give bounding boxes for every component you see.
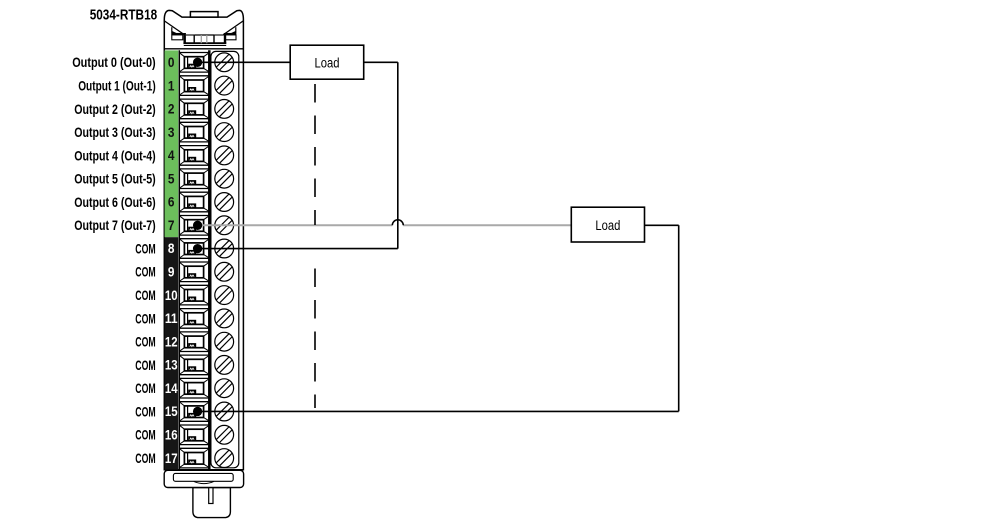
terminal 0 number label xyxy=(168,55,175,70)
wire terminal 0 to Load 1 xyxy=(198,61,291,63)
label COM (terminal 11) xyxy=(135,310,155,326)
terminal 8 screw xyxy=(215,239,234,258)
svg-text:5034-RTB18: 5034-RTB18 xyxy=(90,8,158,24)
RTB bottom flange xyxy=(164,470,243,487)
terminal 12 screw xyxy=(215,332,234,351)
terminal 9 clamp xyxy=(179,262,209,282)
wire Load 2 right to corner xyxy=(644,224,678,226)
svg-text:9: 9 xyxy=(168,265,175,280)
label Output 3 (Out-3) xyxy=(74,124,156,140)
terminal 7 screw xyxy=(215,216,234,235)
label COM (terminal 9) xyxy=(135,264,155,280)
terminal 13 screw xyxy=(215,356,234,375)
svg-text:6: 6 xyxy=(168,195,175,210)
terminal 0 clamp xyxy=(179,53,209,73)
wire hop over crossing xyxy=(392,220,403,225)
label Output 0 (Out-0) xyxy=(72,54,156,70)
terminal 5 screw xyxy=(215,169,234,188)
svg-text:16: 16 xyxy=(165,428,178,443)
terminal 11 number label xyxy=(165,311,178,326)
title 5034-RTB18 xyxy=(90,8,158,24)
svg-text:Output 6 (Out-6): Output 6 (Out-6) xyxy=(74,194,156,210)
terminal 13 clamp xyxy=(179,355,209,375)
svg-text:COM: COM xyxy=(135,357,155,373)
terminal 14 screw xyxy=(215,379,234,398)
terminal 13 number label xyxy=(165,358,178,373)
terminal 1 number label xyxy=(168,78,175,93)
terminal 14 clamp xyxy=(179,378,209,398)
terminal 9 number label xyxy=(168,265,175,280)
label COM (terminal 13) xyxy=(135,357,155,373)
svg-text:10: 10 xyxy=(165,288,178,303)
terminal 4 screw xyxy=(215,146,234,165)
terminal 16 screw xyxy=(215,425,234,444)
terminal 6 clamp xyxy=(179,192,209,212)
label Output 2 (Out-2) xyxy=(74,101,156,117)
svg-text:Output 4 (Out-4): Output 4 (Out-4) xyxy=(74,147,156,163)
svg-text:COM: COM xyxy=(135,403,155,419)
terminal 3 clamp xyxy=(179,122,209,142)
terminal 17 number label xyxy=(165,451,178,466)
svg-text:13: 13 xyxy=(165,358,178,373)
label Output 7 (Out-7) xyxy=(74,217,156,233)
connection dot terminal 0 xyxy=(193,58,202,67)
terminal 0 screw xyxy=(215,53,234,72)
svg-text:3: 3 xyxy=(168,125,175,140)
terminal 9 screw xyxy=(215,262,234,281)
RTB body outline xyxy=(164,10,243,469)
terminal 17 clamp xyxy=(179,448,209,468)
label Output 4 (Out-4) xyxy=(74,147,156,163)
svg-text:COM: COM xyxy=(135,334,155,350)
wire Load 1 right to corner xyxy=(364,61,398,63)
terminal 14 number label xyxy=(165,381,178,396)
terminal 4 number label xyxy=(168,148,175,163)
svg-text:15: 15 xyxy=(165,404,178,419)
label Output 6 (Out-6) xyxy=(74,194,156,210)
terminal 2 clamp xyxy=(179,99,209,119)
terminal 11 clamp xyxy=(179,309,209,329)
svg-text:8: 8 xyxy=(168,241,175,256)
connection dot terminal 15 xyxy=(193,407,202,416)
label COM (terminal 14) xyxy=(135,380,155,396)
label Output 5 (Out-5) xyxy=(74,171,156,187)
svg-text:1: 1 xyxy=(168,78,175,93)
svg-text:Output 1 (Out-1): Output 1 (Out-1) xyxy=(78,78,156,94)
svg-text:14: 14 xyxy=(165,381,178,396)
svg-text:Output 5 (Out-5): Output 5 (Out-5) xyxy=(74,171,156,187)
terminal 7 clamp xyxy=(179,216,209,236)
wire terminal 7 to Load 2 (gray) xyxy=(198,224,572,226)
terminal 5 number label xyxy=(168,171,175,186)
label COM (terminal 8) xyxy=(135,240,155,256)
label COM (terminal 17) xyxy=(135,450,155,466)
svg-text:COM: COM xyxy=(135,310,155,326)
svg-text:COM: COM xyxy=(135,427,155,443)
svg-text:Output 7 (Out-7): Output 7 (Out-7) xyxy=(74,217,156,233)
svg-text:COM: COM xyxy=(135,380,155,396)
svg-text:17: 17 xyxy=(165,451,178,466)
svg-text:5: 5 xyxy=(168,171,175,186)
svg-text:4: 4 xyxy=(168,148,175,163)
load box L1 xyxy=(290,45,364,79)
svg-text:2: 2 xyxy=(168,102,175,117)
svg-text:Output 2 (Out-2): Output 2 (Out-2) xyxy=(74,101,156,117)
terminal 1 screw xyxy=(215,76,234,95)
terminal 12 number label xyxy=(165,334,178,349)
svg-text:Output 3 (Out-3): Output 3 (Out-3) xyxy=(74,124,156,140)
RTB latch details xyxy=(164,21,244,49)
terminal 16 clamp xyxy=(179,425,209,445)
svg-text:Load: Load xyxy=(315,56,340,72)
terminal 6 screw xyxy=(215,193,234,212)
terminal 3 number label xyxy=(168,125,175,140)
label COM (terminal 15) xyxy=(135,403,155,419)
svg-text:COM: COM xyxy=(135,264,155,280)
terminal 15 screw xyxy=(215,402,234,421)
terminal 8 number label xyxy=(168,241,175,256)
terminal 1 clamp xyxy=(179,76,209,96)
terminal 7 number label xyxy=(168,218,175,233)
terminal 4 clamp xyxy=(179,146,209,166)
label COM (terminal 12) xyxy=(135,334,155,350)
screw channel xyxy=(211,51,239,467)
terminal 8 clamp xyxy=(179,239,209,259)
wire vertical Load 1 return xyxy=(397,62,399,248)
svg-text:COM: COM xyxy=(135,450,155,466)
svg-text:COM: COM xyxy=(135,287,155,303)
terminal 3 screw xyxy=(215,123,234,142)
terminal 2 screw xyxy=(215,100,234,119)
terminal 10 number label xyxy=(165,288,178,303)
svg-text:Load: Load xyxy=(595,218,620,234)
clamp housing column edges xyxy=(179,50,209,470)
terminal 11 screw xyxy=(215,309,234,328)
label COM (terminal 10) xyxy=(135,287,155,303)
connection dot terminal 8 xyxy=(193,244,202,253)
wire vertical Load 2 return xyxy=(678,225,680,411)
black numbers column (COM 8-17) xyxy=(165,237,179,470)
terminal 15 clamp xyxy=(179,402,209,422)
terminal 16 number label xyxy=(165,428,178,443)
label Output 1 (Out-1) xyxy=(78,78,156,94)
wire corner to terminal 8 xyxy=(198,248,398,250)
terminal 15 number label xyxy=(165,404,178,419)
terminal 2 number label xyxy=(168,102,175,117)
terminal 10 screw xyxy=(215,286,234,305)
RTB latch tab xyxy=(190,12,218,18)
wire corner to terminal 15 xyxy=(198,410,679,412)
svg-text:7: 7 xyxy=(168,218,175,233)
terminal 10 clamp xyxy=(179,285,209,305)
label COM (terminal 16) xyxy=(135,427,155,443)
terminal 12 clamp xyxy=(179,332,209,352)
RTB bottom plug tab xyxy=(193,488,231,518)
svg-text:11: 11 xyxy=(165,311,178,326)
load box L2 xyxy=(571,207,644,242)
connection dot terminal 7 xyxy=(193,221,202,230)
dashed continuation line lower xyxy=(314,269,316,409)
dashed continuation line upper xyxy=(314,84,316,225)
terminal 5 clamp xyxy=(179,169,209,189)
terminal 6 number label xyxy=(168,195,175,210)
green numbers column (outputs 0-7) xyxy=(165,50,179,237)
svg-text:COM: COM xyxy=(135,240,155,256)
terminal 17 screw xyxy=(215,449,234,468)
svg-text:12: 12 xyxy=(165,334,178,349)
svg-text:0: 0 xyxy=(168,55,175,70)
svg-text:Output 0 (Out-0): Output 0 (Out-0) xyxy=(72,54,156,70)
